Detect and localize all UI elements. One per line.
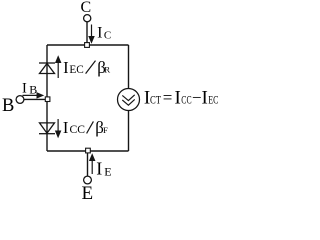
node junction emitter: [86, 148, 91, 153]
label Ic: [97, 24, 111, 41]
svg-text:R: R: [104, 65, 110, 75]
svg-text:I: I: [96, 158, 102, 178]
svg-text:E: E: [104, 165, 111, 179]
svg-text:I: I: [63, 118, 69, 137]
svg-text:E: E: [82, 183, 94, 201]
label Ib: [22, 81, 37, 97]
svg-text:C: C: [104, 30, 111, 42]
svg-text:C: C: [81, 0, 92, 16]
current source chevrons: [122, 95, 134, 105]
wire bottom edge: [47, 150, 129, 152]
svg-text:B: B: [29, 82, 37, 96]
svg-text:CC: CC: [70, 122, 86, 136]
node junction top: [85, 43, 90, 48]
svg-text:CT: CT: [150, 92, 161, 106]
wire collector lead: [86, 22, 88, 45]
current source Ict (circle): [118, 89, 140, 111]
wire left edge: [46, 45, 48, 151]
diode VD2 (B-E, pointing down): [39, 123, 55, 134]
label Iec/betaR: [63, 58, 110, 77]
svg-text:=: =: [163, 88, 173, 107]
svg-text:EC: EC: [208, 92, 218, 106]
wire top edge: [47, 44, 129, 46]
svg-text:F: F: [103, 125, 108, 135]
wire right edge lower: [128, 111, 130, 152]
wire emitter lead: [87, 151, 89, 176]
arrow Iec: [56, 57, 61, 79]
label Ict=Icc-Iec: [144, 87, 219, 108]
svg-text:CC: CC: [181, 92, 191, 106]
label Ie: [96, 158, 111, 178]
svg-text:EC: EC: [69, 62, 83, 76]
svg-text:I: I: [22, 81, 27, 97]
terminal E: [84, 176, 92, 184]
svg-text:B: B: [2, 96, 14, 116]
terminal B: [16, 96, 24, 104]
wire base lead: [24, 98, 47, 100]
svg-text:I: I: [175, 87, 181, 108]
svg-text:−: −: [192, 88, 202, 107]
arrow Ic: [89, 25, 94, 43]
svg-text:I: I: [202, 87, 208, 108]
diode VD1 (B-C, pointing up): [39, 63, 55, 74]
terminal C: [84, 15, 91, 22]
arrow Ib: [23, 93, 44, 98]
wire right edge upper: [128, 45, 130, 89]
arrow Icc: [56, 119, 61, 137]
label Icc/betaF: [63, 118, 108, 137]
svg-text:I: I: [97, 24, 102, 41]
node junction base: [45, 97, 50, 102]
svg-text:I: I: [63, 58, 69, 77]
arrow Ie: [90, 155, 95, 175]
